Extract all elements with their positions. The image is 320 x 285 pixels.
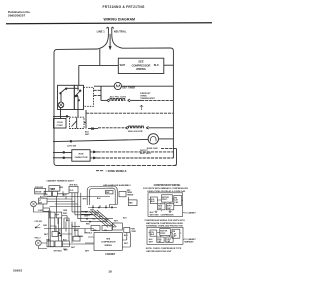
- block1 title1: [154, 184, 181, 187]
- svg-text:THERM: THERM: [127, 194, 134, 196]
- label BLK: [154, 64, 159, 67]
- harness right cluster box: [119, 192, 126, 197]
- block1 inner motor box: [162, 195, 173, 202]
- svg-text:LITE SW: LITE SW: [35, 221, 43, 223]
- light switch box left: [58, 85, 75, 109]
- block1 inner start box: [166, 204, 174, 210]
- label DEFROST TERM: [140, 93, 155, 100]
- harness lamp B: [35, 240, 41, 246]
- block1 side label: [184, 211, 196, 214]
- connector pair on mullion row: [88, 127, 98, 130]
- svg-text:59952: 59952: [13, 269, 22, 273]
- footer page number: [108, 270, 112, 274]
- harness box top A: [35, 188, 46, 194]
- defrost termination switch glyph: [140, 105, 143, 110]
- label MULLION HTR: [128, 131, 143, 133]
- block2 inner relay box: [172, 229, 180, 238]
- block1 title2: [143, 187, 188, 190]
- run capacitor box C1: [72, 150, 90, 162]
- light switch box right: [74, 85, 83, 109]
- block1 side link: [183, 212, 184, 214]
- harness duct box: [106, 191, 114, 195]
- svg-text:SW: SW: [45, 194, 48, 196]
- block1 title3: [147, 190, 186, 193]
- svg-text:COLD: COLD: [57, 122, 64, 124]
- harness caption bottom center: [105, 253, 116, 256]
- block2 caption2: [146, 251, 172, 253]
- label LITE SW: [67, 146, 77, 148]
- caption cabinet harness header: [46, 180, 74, 183]
- svg-text:WHT: WHT: [120, 64, 126, 67]
- wire cold control row: [53, 116, 70, 118]
- wire vertical junction x86: [85, 110, 87, 129]
- harness vertical pair: [49, 211, 50, 247]
- header model number text: [103, 5, 145, 9]
- svg-text:GRN: GRN: [84, 216, 89, 218]
- svg-text:ORN: ORN: [63, 210, 68, 212]
- run capacitor row 2: [53, 157, 72, 159]
- svg-text:LINE 1: LINE 1: [97, 29, 106, 33]
- svg-text:FRT21NNG & FRT21TNG: FRT21NNG & FRT21TNG: [103, 5, 145, 9]
- connector J2: [90, 157, 97, 160]
- wire right supply curve and right rail: [112, 34, 174, 158]
- harness duct inner: [89, 188, 115, 205]
- label blk duct: [97, 198, 101, 200]
- door switch S1: [60, 88, 79, 94]
- wire compressor row right: [164, 64, 174, 66]
- svg-text:NOTE: CHECK COMPRESSOR TYPE: NOTE: CHECK COMPRESSOR TYPE: [146, 248, 182, 250]
- svg-text:FOR UNITS WITH EMBRACO COMPRES: FOR UNITS WITH EMBRACO COMPRESSORS: [143, 187, 188, 190]
- wire light box to junction lower: [94, 95, 102, 100]
- harness evap box: [113, 223, 123, 230]
- svg-text:CONT.: CONT.: [57, 125, 64, 127]
- svg-text:MATSUSHITA COMPRESSORS USING: MATSUSHITA COMPRESSORS USING: [146, 222, 183, 225]
- svg-text:CORD: CORD: [131, 231, 137, 233]
- label freezer light: [35, 238, 42, 240]
- harness long verticals: [57, 197, 83, 244]
- svg-text:COMPRESSOR: COMPRESSOR: [132, 63, 151, 67]
- block2 title3: [146, 225, 183, 228]
- label NEUTRAL: [114, 29, 127, 33]
- harness box top B: [49, 186, 60, 192]
- svg-text:BEFORE SERVICING UNIT: BEFORE SERVICING UNIT: [146, 251, 172, 253]
- svg-text:COMPRESSOR: COMPRESSOR: [101, 242, 116, 244]
- harness wire bundle verticals: [72, 193, 81, 222]
- svg-text:= SOME MODELS: = SOME MODELS: [106, 170, 127, 173]
- wire dashed row y148: [161, 148, 177, 150]
- label BLK WHT small left: [85, 132, 90, 136]
- wire dashed row y158: [98, 157, 174, 159]
- header publication number text: [8, 10, 31, 17]
- svg-text:18: 18: [108, 270, 112, 274]
- wire lamp to cold control: [61, 108, 79, 119]
- harness box j1: [50, 212, 56, 218]
- harness diagonal bundle: [89, 210, 115, 227]
- wire heater row to rail: [141, 99, 173, 101]
- block1 inner wires: [149, 199, 183, 211]
- svg-text:DEF. TIMER: DEF. TIMER: [122, 87, 135, 89]
- light switch dashed extension: [84, 87, 94, 106]
- harness compressor big box: [94, 233, 122, 251]
- svg-text:PLG: PLG: [70, 190, 74, 192]
- svg-text:5995209257: 5995209257: [8, 14, 25, 18]
- defrost timer motor M1: [94, 82, 173, 89]
- block2 title2: [146, 222, 183, 225]
- harness box top A label: [35, 187, 44, 189]
- ground wire with arrow: [109, 34, 111, 49]
- label ADJ FRZ CONT: [110, 95, 127, 98]
- svg-text:FRZ LT: FRZ LT: [35, 238, 42, 240]
- block1 inner relay box: [174, 196, 182, 206]
- svg-text:EVAP. FAN: EVAP. FAN: [147, 147, 158, 150]
- harness glyph cluster: [52, 232, 61, 237]
- label see compressor wiring bottom: [101, 238, 116, 246]
- svg-text:ADJ. FRZ. CONT.: ADJ. FRZ. CONT.: [110, 95, 127, 98]
- wire light box to junction upper: [94, 86, 102, 90]
- caption air handler header: [103, 184, 131, 187]
- block2 inner run box: [157, 237, 164, 243]
- svg-text:SW: SW: [39, 202, 42, 204]
- svg-text:MULLION HTR.: MULLION HTR.: [128, 131, 143, 133]
- harness text bottom left: [54, 251, 63, 253]
- harness extra tiny labels: [40, 185, 129, 253]
- block2 inner motor box: [160, 229, 171, 236]
- block1 inner overload box: [150, 197, 157, 204]
- header rule: [6, 23, 212, 24]
- block1 ground marks: [155, 211, 172, 213]
- header wiring diagram title: [104, 18, 136, 22]
- defrost heater R1: [101, 99, 141, 102]
- block2 inner bottom text: [149, 239, 154, 243]
- svg-text:LITE SW: LITE SW: [67, 146, 77, 148]
- wire left supply curve and left rail: [54, 34, 108, 166]
- label SEE COMPRESSOR WIRING: [132, 60, 151, 71]
- svg-text:TO CABINET: TO CABINET: [184, 211, 196, 214]
- cold control CC1: [54, 119, 67, 129]
- harness extra stubs: [50, 205, 130, 248]
- harness box j4: [55, 241, 62, 247]
- label WHT: [120, 64, 126, 67]
- harness right vertical: [127, 197, 129, 200]
- svg-text:USING PUSH-ON RELAY & OVERLOAD: USING PUSH-ON RELAY & OVERLOAD: [147, 190, 186, 193]
- block2 caption1: [146, 248, 182, 250]
- svg-text:COMPRESSOR WIRING FOR UNITS WI: COMPRESSOR WIRING FOR UNITS WITH: [144, 220, 185, 222]
- footer document number: [13, 269, 22, 273]
- right column compressor detail blocks: [143, 184, 196, 253]
- svg-text:SEE: SEE: [106, 238, 111, 240]
- compressor box: [118, 58, 164, 73]
- label DEF. TIMER: [122, 87, 135, 89]
- harness box sw1: [44, 191, 51, 196]
- svg-text:COMPRESSOR: COMPRESSOR: [161, 214, 175, 216]
- svg-text:CABINET HARNESS ASSY: CABINET HARNESS ASSY: [46, 180, 74, 183]
- svg-text:COMPRESSOR WIRING: COMPRESSOR WIRING: [154, 184, 181, 187]
- svg-text:WIRING DIAGRAM: WIRING DIAGRAM: [104, 18, 136, 22]
- wire compressor feed drop: [99, 49, 101, 66]
- svg-text:PROT.: PROT.: [160, 233, 166, 235]
- defrost relay dashed box: [70, 117, 87, 128]
- block2 side label: [184, 238, 196, 244]
- harness text row small: [38, 210, 44, 212]
- block1 frame: [148, 193, 183, 217]
- block1 inner run box: [158, 204, 166, 210]
- block2 title1: [144, 220, 185, 222]
- svg-text:CAPACITOR: CAPACITOR: [75, 156, 88, 159]
- harness box sw2: [53, 191, 58, 196]
- harness right cluster text: [127, 190, 134, 197]
- harness links: [34, 204, 95, 249]
- harness junction row: [88, 207, 117, 208]
- harness cross wires left: [44, 191, 110, 228]
- svg-text:CABINET: CABINET: [105, 253, 116, 256]
- svg-text:BLK: BLK: [154, 64, 159, 67]
- svg-text:WIRING: WIRING: [136, 67, 146, 71]
- harness box j2: [56, 212, 62, 218]
- harness bend rows right: [72, 211, 113, 222]
- block2 inner overload box: [150, 230, 157, 236]
- harness right text pair: [131, 229, 137, 233]
- label RUN CAPACITOR: [75, 154, 88, 159]
- svg-text:PROT.: PROT.: [162, 199, 168, 201]
- mullion heater R2: [98, 126, 173, 129]
- evaporator fan motor M2: [140, 134, 173, 144]
- door switch S2: [75, 86, 81, 110]
- harness extra labels bottom: [46, 233, 93, 252]
- refrigerator lamp L1: [58, 93, 64, 108]
- svg-text:SEE: SEE: [138, 60, 143, 64]
- svg-text:HARNESS: HARNESS: [184, 241, 194, 244]
- plug P1 line prong: [107, 27, 109, 34]
- wire dashed row to rail y113: [86, 112, 173, 114]
- connector J1: [90, 151, 97, 154]
- block1 inner bottom text: [150, 212, 174, 216]
- harness small boxes above compressor: [91, 226, 112, 231]
- block2 side link: [183, 239, 184, 241]
- harness lamp A: [31, 201, 37, 207]
- evaporator fan row wire: [53, 139, 148, 142]
- harness box small top strip: [43, 208, 50, 211]
- svg-text:WHT LT.: WHT LT.: [140, 150, 148, 152]
- harness box j5: [63, 241, 70, 247]
- harness box light sw: [39, 198, 48, 204]
- svg-text:ORN BLK: ORN BLK: [84, 233, 93, 235]
- harness switch glyph: [35, 224, 40, 228]
- wire compressor row left: [79, 65, 119, 85]
- wire bottom rail dashed right part: [101, 164, 177, 166]
- lower pictorial section: [31, 180, 137, 256]
- block2 inner wires: [149, 233, 182, 238]
- plug P1 neutral prong: [112, 27, 114, 34]
- svg-text:NEUTRAL: NEUTRAL: [114, 29, 127, 33]
- wire right outer bump: [174, 149, 176, 166]
- harness duct outer: [87, 186, 117, 205]
- harness right small box: [124, 227, 130, 232]
- harness right lower box: [128, 200, 137, 206]
- svg-text:BLKT WHT: BLKT WHT: [140, 153, 152, 155]
- harness tiny labels mid: [63, 195, 96, 232]
- svg-text:THERMOSTAT: THERMOSTAT: [140, 97, 155, 100]
- harness top bundle box: [69, 186, 78, 193]
- legend SOME MODELS: [96, 170, 104, 172]
- junction dots in light box: [77, 95, 80, 101]
- wire junction vertical to heater row: [100, 86, 102, 100]
- label EVAP FAN: [147, 147, 158, 150]
- svg-text:GRN WHT: GRN WHT: [35, 187, 44, 189]
- block2 inner start box: [166, 237, 173, 243]
- label lite sw: [35, 221, 43, 223]
- label WHT LT: [140, 150, 152, 155]
- run capacitor row 1: [53, 152, 72, 154]
- svg-text:WHT BLK: WHT BLK: [54, 251, 63, 253]
- harness box j3: [47, 241, 54, 247]
- block2 frame: [147, 227, 183, 244]
- svg-text:RUN: RUN: [79, 154, 84, 156]
- svg-text:WHT GRN: WHT GRN: [150, 215, 159, 217]
- svg-text:AIR HANDLER ASSEMBLY: AIR HANDLER ASSEMBLY: [103, 184, 131, 187]
- label COLD CONT: [57, 122, 64, 127]
- harness mini box center: [73, 236, 80, 241]
- wire dashed row y152: [98, 151, 174, 153]
- svg-text:WIRING: WIRING: [104, 245, 112, 247]
- svg-text:DR SW: DR SW: [35, 192, 41, 194]
- label LINE 1: [97, 29, 106, 33]
- svg-text:WHT BLK: WHT BLK: [70, 185, 79, 187]
